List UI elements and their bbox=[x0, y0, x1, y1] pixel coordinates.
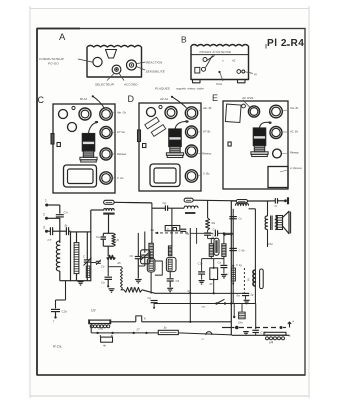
svg-text:A2: A2 bbox=[231, 59, 236, 63]
svg-text:AC. Bv: AC. Bv bbox=[289, 130, 299, 134]
svg-text:SENSIBILITÉ: SENSIBILITÉ bbox=[146, 69, 166, 74]
svg-text:C: C bbox=[38, 95, 45, 105]
svg-text:+: + bbox=[292, 320, 294, 324]
svg-text:AV. RVA.: AV. RVA. bbox=[241, 96, 254, 100]
svg-text:3: 3 bbox=[43, 226, 45, 230]
svg-text:2: 2 bbox=[43, 213, 45, 217]
svg-text:Aér. Bv: Aér. Bv bbox=[202, 106, 212, 110]
svg-text:Cb: Cb bbox=[101, 265, 105, 269]
svg-text:E: E bbox=[212, 93, 218, 103]
svg-text:RÉACTION: RÉACTION bbox=[146, 59, 163, 64]
svg-text:Ca: Ca bbox=[101, 281, 105, 285]
svg-text:Cb: Cb bbox=[130, 254, 134, 258]
svg-text:Cu: Cu bbox=[239, 217, 243, 221]
svg-text:HT Go: HT Go bbox=[117, 130, 125, 134]
svg-text:C32: C32 bbox=[268, 243, 273, 246]
svg-text:ACCORD: ACCORD bbox=[123, 83, 138, 87]
svg-text:C6: C6 bbox=[176, 279, 180, 283]
svg-text:C 4b: C 4b bbox=[239, 249, 245, 253]
svg-text:A: A bbox=[59, 32, 66, 43]
svg-text:HT Bs: HT Bs bbox=[203, 130, 211, 134]
svg-text:Rf: Rf bbox=[210, 282, 213, 286]
svg-text:A. Dessus: A. Dessus bbox=[289, 166, 303, 170]
svg-text:R.Ca.: R.Ca. bbox=[53, 345, 62, 349]
svg-text:V. Go: V. Go bbox=[117, 176, 124, 180]
svg-text:Cg: Cg bbox=[148, 296, 152, 300]
svg-text:C1g: C1g bbox=[249, 293, 254, 297]
svg-text:C1b: C1b bbox=[198, 262, 203, 266]
svg-text:Terre: Terre bbox=[216, 82, 223, 86]
svg-text:R4: R4 bbox=[291, 38, 305, 49]
svg-text:Ca: Ca bbox=[96, 235, 100, 239]
svg-text:Ma: Ma bbox=[151, 228, 155, 232]
svg-text:PLAQUES: PLAQUES bbox=[155, 87, 170, 91]
svg-text:1: 1 bbox=[45, 199, 47, 203]
svg-text:COMMUTATEUR: COMMUTATEUR bbox=[39, 57, 65, 61]
svg-text:magnéts réseau ondes: magnéts réseau ondes bbox=[176, 87, 205, 91]
svg-text:CA: CA bbox=[64, 211, 68, 215]
svg-text:B: B bbox=[181, 35, 187, 45]
svg-text:Ra: Ra bbox=[212, 221, 216, 225]
svg-text:C 1g: C 1g bbox=[236, 263, 242, 267]
svg-text:Rf: Rf bbox=[226, 273, 229, 277]
svg-text:Réseau: Réseau bbox=[117, 152, 127, 156]
svg-text:PO-GO: PO-GO bbox=[48, 61, 59, 65]
svg-text:Rg: Rg bbox=[131, 286, 135, 290]
svg-text:mo.: mo. bbox=[202, 305, 206, 308]
svg-text:SELECTEUR: SELECTEUR bbox=[95, 83, 115, 87]
svg-text:=: = bbox=[289, 334, 291, 338]
svg-text:18m: 18m bbox=[238, 322, 243, 325]
svg-text:U3: U3 bbox=[91, 309, 95, 313]
svg-text:Aér. Go: Aér. Go bbox=[116, 111, 127, 115]
svg-text:Cg: Cg bbox=[163, 201, 167, 205]
svg-text:AF A2: AF A2 bbox=[159, 97, 169, 101]
svg-text:D: D bbox=[128, 94, 135, 104]
svg-text:Rb: Rb bbox=[118, 261, 122, 265]
svg-text:Ra: Ra bbox=[237, 294, 241, 298]
svg-text:m.: m. bbox=[202, 338, 205, 341]
svg-text:C2b: C2b bbox=[62, 310, 68, 314]
svg-text:Cg: Cg bbox=[186, 232, 190, 236]
svg-text:Réseau: Réseau bbox=[202, 152, 212, 156]
svg-text:V. Bo: V. Bo bbox=[203, 172, 210, 176]
svg-text:Réseau: Réseau bbox=[290, 151, 299, 155]
svg-text:Ca: Ca bbox=[218, 261, 222, 265]
svg-text:Ca: Ca bbox=[213, 228, 217, 232]
svg-text:Pl 2: Pl 2 bbox=[267, 38, 287, 49]
svg-text:PRISES D'ANTENNE: PRISES D'ANTENNE bbox=[200, 50, 232, 54]
svg-text:Tas. Bv: Tas. Bv bbox=[290, 106, 299, 110]
svg-text:27: 27 bbox=[136, 328, 141, 332]
svg-text:Fil: Fil bbox=[254, 73, 257, 77]
svg-text:Bt A2: Bt A2 bbox=[80, 97, 88, 101]
svg-text:K: K bbox=[144, 317, 146, 321]
svg-text:2w3: 2w3 bbox=[98, 326, 104, 330]
svg-text:U4: U4 bbox=[269, 341, 273, 345]
